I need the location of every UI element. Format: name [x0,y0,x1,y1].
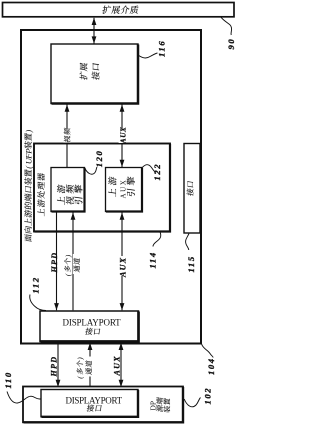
arrow: bar to expansion interface (double) [92,18,97,44]
svg-text:P: P [23,148,33,155]
svg-text:AUX: AUX [119,127,127,145]
box 102: DP source device outer [23,387,183,423]
label 90 [226,38,236,50]
label 104 [206,357,216,375]
svg-text:AUX: AUX [119,257,128,278]
box 120: upstream video engine [51,168,85,212]
svg-text:112: 112 [31,276,41,293]
svg-text:AUX: AUX [120,179,128,199]
leader squiggle to 110 [7,392,41,404]
svg-text:AUX: AUX [113,355,122,376]
leader squiggle to 104 [202,344,214,358]
arrow: lanes lower [88,343,93,387]
box 112: DISPLAYPORT interface (UFP side) [40,311,139,342]
leader squiggle to 120 [85,167,97,174]
leader squiggle to 102 [184,398,200,407]
svg-text:HPD: HPD [50,356,59,378]
box 116: expansion interface [51,44,138,104]
box: extension medium bar (90) [3,3,235,17]
label 102 [203,387,213,405]
svg-text:): ) [76,357,85,361]
svg-text:122: 122 [152,163,162,181]
svg-text:DP: DP [149,401,158,410]
label 110 [3,371,13,388]
svg-text:102: 102 [203,387,213,405]
svg-text:104: 104 [206,357,216,375]
svg-text:): ) [63,254,72,258]
svg-text:114: 114 [148,251,158,268]
label (multiple) lanes mid [63,254,80,276]
label 122 [152,163,162,181]
label AUX upper on line [119,127,128,145]
svg-text:DISPLAYPORT: DISPLAYPORT [63,318,122,328]
svg-text:90: 90 [226,38,236,50]
box 114: upstream processor [34,144,170,232]
svg-text:): ) [23,130,33,134]
arrow: AUX lower (double) [119,343,124,387]
svg-text:116: 116 [157,40,167,57]
UFP device rotated title [23,130,33,243]
DP source device rotated title [149,397,171,413]
box 110: DISPLAYPORT interface (source side) [41,390,138,417]
svg-text:HPD: HPD [50,252,59,274]
box: UFP device outer (104) [21,30,201,344]
label 115 [186,255,196,272]
leader squiggle to 114 [153,232,161,247]
arrow: video (116 to video engine) [65,105,70,168]
label (multiple) lanes lower [76,357,93,379]
box 122: upstream AUX engine [106,168,143,212]
label video on line [63,128,70,143]
label 112 [31,276,41,293]
leader squiggle to 122 [142,165,156,173]
leader squiggle to 116 [139,53,158,58]
label AUX mid on line [119,256,128,278]
label 116 [157,40,167,57]
label HPD lower [50,356,59,378]
svg-text:120: 120 [94,150,104,168]
arrow: lanes up (DP interface to video engine) [71,213,76,311]
leader squiggle to 90 [221,17,232,35]
leader squiggle to 115 [186,234,189,251]
box 115: interface (tall right) [184,144,200,234]
svg-text:DISPLAYPORT: DISPLAYPORT [66,396,123,406]
arrow: HPD down (processor to DP interface) [54,213,59,311]
upstream processor rotated title [37,173,44,217]
label 114 [148,251,158,268]
label AUX lower [113,355,122,376]
svg-text:115: 115 [186,255,196,272]
label HPD mid [50,252,59,274]
arrow: AUX upper (116 to AUX engine, double) [120,105,125,168]
arrow: AUX mid (double) [120,213,125,311]
svg-text:110: 110 [3,371,13,388]
arrow: HPD lower [56,343,61,387]
leader squiggle to 112 [30,295,46,311]
label 120 [94,150,104,168]
